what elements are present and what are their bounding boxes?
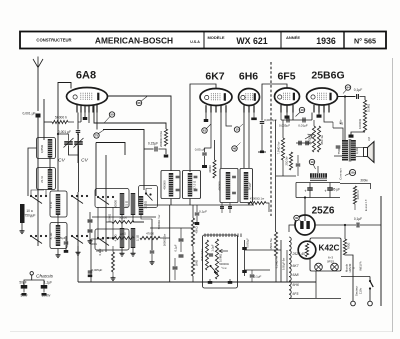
tube 25B6G — [307, 88, 338, 105]
wire screen cap left — [144, 148, 154, 150]
wire choke bus — [296, 182, 340, 184]
capacitor 0,05uF 6K7 — [195, 148, 207, 155]
text 0,002 — [98, 248, 102, 255]
6F5 pins — [281, 105, 293, 113]
wire bus 205 — [144, 204, 254, 206]
wire speaker top — [356, 148, 364, 157]
wire 25B6G g1 — [311, 113, 313, 121]
dashed divider — [270, 62, 272, 216]
svg-text:30000: 30000 — [208, 165, 212, 173]
wire under 6F5 h — [276, 175, 296, 177]
svg-text:10: 10 — [235, 128, 239, 132]
capacitor 0,1uF out — [250, 270, 262, 282]
25B6G pins — [314, 105, 329, 113]
title text ANNEE — [286, 35, 300, 40]
volume pot element — [215, 239, 222, 279]
electrolytic 50uF — [19, 281, 28, 298]
capacitor 0,005uF coup — [279, 118, 290, 128]
wire mains tee — [341, 276, 370, 278]
dial lamp 2 — [331, 263, 339, 271]
svg-text:8,1Ω: 8,1Ω — [49, 232, 53, 239]
text 50000 halfw — [157, 215, 161, 229]
svg-text:110v: 110v — [359, 287, 363, 294]
antenna lead lower — [37, 118, 39, 197]
svg-text:25Ω 5w: 25Ω 5w — [285, 156, 289, 165]
output transformer core — [349, 139, 351, 162]
wire osc sw mid — [98, 207, 113, 238]
wire mid vertical 169 — [169, 205, 171, 282]
wire 15K bottom — [275, 256, 277, 282]
IF transformer 2 box a — [220, 169, 238, 203]
capacitor 0,01uF coup — [298, 118, 308, 128]
wire avc h links — [106, 222, 170, 238]
title text No 565 — [354, 37, 376, 46]
tube 6A8 — [67, 88, 108, 106]
capacitor 0,15uF screen — [148, 142, 158, 152]
circled 19a — [296, 107, 305, 116]
resistor 45 ohm — [317, 126, 323, 152]
svg-text:750μμF: 750μμF — [25, 214, 36, 218]
svg-text:Mazda: Mazda — [345, 263, 349, 272]
title text CONSTRUCTEUR — [36, 38, 71, 43]
svg-text:0P25: 0P25 — [327, 260, 334, 264]
svg-text:6F5: 6F5 — [277, 71, 295, 83]
title text USA — [190, 40, 200, 44]
switch S2 wafer — [71, 195, 88, 204]
speaker — [364, 137, 375, 163]
svg-text:0,1μF: 0,1μF — [354, 88, 363, 92]
svg-text:10b: 10b — [350, 170, 355, 174]
switch box mid lower — [95, 229, 129, 250]
ground chassis caps — [22, 293, 47, 296]
svg-text:N° 565: N° 565 — [354, 37, 376, 46]
svg-text:17,5 Ω: 17,5 Ω — [193, 181, 197, 189]
wire vol right verticals — [281, 240, 287, 282]
volume switch — [209, 262, 228, 275]
svg-text:B: B — [352, 267, 356, 269]
text 5000 5w — [163, 234, 167, 246]
wire riser 91 — [91, 239, 104, 282]
svg-text:0,01μF: 0,01μF — [298, 124, 308, 128]
svg-text:0,1μF: 0,1μF — [199, 210, 207, 214]
tube 6K7 — [200, 89, 232, 106]
wire 7M — [282, 120, 284, 176]
wire field down — [354, 204, 356, 210]
ground coil L4 — [56, 249, 61, 258]
capacitor 0,1uF tone — [354, 88, 363, 99]
svg-text:47000: 47000 — [146, 232, 154, 236]
wire screen cap right — [159, 149, 169, 158]
capacitor 0,005uF bus — [88, 268, 103, 277]
svg-text:½ w: ½ w — [222, 266, 227, 270]
antenna coil L1 — [40, 139, 52, 158]
svg-text:750Ω: 750Ω — [337, 148, 341, 155]
wire tone bend — [360, 97, 366, 101]
osc coil L4 — [49, 225, 60, 246]
wire 45v drop — [339, 95, 347, 142]
IFT1 trimmer b — [194, 176, 198, 191]
svg-text:0,85Ω: 0,85Ω — [40, 144, 44, 153]
svg-text:45v: 45v — [339, 119, 343, 124]
svg-text:0,005μF: 0,005μF — [54, 236, 65, 240]
svg-text:MODÈLE: MODÈLE — [207, 35, 224, 40]
text 88uF — [90, 242, 104, 253]
svg-text:6K7: 6K7 — [205, 71, 224, 83]
svg-text:50: 50 — [110, 113, 114, 117]
wire 6A8 g1 pin — [78, 113, 81, 123]
svg-text:50000: 50000 — [119, 216, 127, 220]
wire mid h228 — [150, 227, 193, 229]
capacitor 0,005uF band — [54, 236, 68, 253]
svg-text:6H6: 6H6 — [239, 71, 258, 83]
capacitor mid small — [296, 155, 301, 176]
svg-text:10000Ω: 10000Ω — [358, 119, 362, 129]
svg-text:50μF: 50μF — [19, 281, 26, 285]
6K7 pins — [206, 105, 226, 112]
text 05M label — [275, 256, 286, 270]
svg-text:3,8: 3,8 — [367, 137, 371, 141]
svg-text:50μμF: 50μμF — [248, 182, 252, 190]
resistor 47000 det — [248, 197, 266, 205]
antenna coil box 2 — [37, 168, 56, 190]
volume pot box — [203, 235, 238, 288]
wire 45K joins — [192, 205, 194, 282]
svg-text:INELFA: INELFA — [359, 261, 363, 270]
IFT2 secondary — [244, 172, 252, 200]
osc coil L9 — [131, 228, 140, 248]
circled 66 — [136, 97, 147, 106]
wire 6H6 cathode — [249, 113, 257, 169]
capacitor 0,1uF det out — [195, 205, 207, 225]
svg-text:WX 621: WX 621 — [236, 36, 267, 46]
circled 61 — [202, 124, 211, 133]
wire line cap right — [360, 224, 381, 226]
svg-text:0,001 μF: 0,001 μF — [22, 112, 35, 116]
svg-text:Commun: Commun — [339, 168, 343, 180]
IFT2 bottom caps — [220, 203, 232, 214]
text E exc IT — [364, 199, 368, 212]
svg-text:45Ω 1w: 45Ω 1w — [320, 134, 324, 145]
resistor 25ohm — [285, 152, 293, 170]
wire 25B6G plate out — [338, 96, 356, 98]
osc coil L8 — [114, 228, 125, 248]
svg-text:6A8: 6A8 — [76, 70, 96, 82]
switch box right — [139, 186, 158, 208]
svg-text:10 a: 10 a — [26, 209, 32, 213]
tube 6F5 — [275, 88, 300, 105]
wire heater drop — [344, 224, 346, 239]
title block frame — [20, 32, 386, 49]
wire long return — [275, 120, 277, 232]
ground L8 — [120, 248, 125, 256]
wire 6A8 plate to IFT1 — [108, 96, 172, 171]
wire 6F5 bias left — [280, 113, 282, 121]
wire coupling bus — [281, 119, 312, 121]
wire coil join — [28, 148, 50, 196]
svg-text:2MΩ: 2MΩ — [195, 259, 199, 266]
svg-text:2MΩ 0,5w: 2MΩ 0,5w — [200, 249, 204, 261]
wire pot out lower — [242, 270, 270, 273]
page edge right — [392, 58, 394, 332]
6K7 grid wire — [190, 84, 216, 172]
wire 6K7 g2 — [202, 113, 211, 169]
tube K42C — [298, 241, 316, 259]
svg-text:66: 66 — [137, 101, 141, 105]
svg-text:0,1μF: 0,1μF — [354, 217, 362, 221]
6H6 pins — [244, 105, 254, 112]
wire ant riser — [37, 236, 39, 246]
resistor 700 heater — [343, 239, 350, 255]
padder capacitor 750uuF — [20, 204, 36, 223]
svg-text:15KΩ 5w: 15KΩ 5w — [269, 237, 273, 249]
switch S3 wafer — [97, 196, 114, 205]
text Mazda — [345, 263, 356, 272]
svg-text:94: 94 — [346, 86, 350, 90]
svg-text:0,5MΩ: 0,5MΩ — [219, 254, 223, 262]
text INELFA — [359, 261, 363, 270]
resistor 2M pot left — [200, 240, 209, 270]
svg-text:300w: 300w — [360, 179, 368, 183]
wire bottom bus — [78, 281, 316, 283]
svg-text:1,0μF: 1,0μF — [211, 244, 215, 251]
svg-text:1000Ω: 1000Ω — [108, 214, 112, 222]
wire 6A8 cathode blob — [83, 113, 88, 121]
svg-text:19: 19 — [310, 160, 314, 164]
wire 6H6 diode — [243, 113, 245, 169]
svg-text:61: 61 — [203, 129, 207, 133]
tube 6K7 label — [205, 71, 224, 83]
IFT2 trimmer a — [232, 176, 236, 194]
wire det cap down — [258, 125, 266, 154]
svg-text:20000Ω 0,5w: 20000Ω 0,5w — [159, 131, 163, 147]
wire osc grid vert — [77, 113, 79, 164]
wire filter gnd bus — [296, 183, 340, 198]
svg-text:AMERICAN-BOSCH: AMERICAN-BOSCH — [95, 36, 173, 46]
svg-text:19: 19 — [300, 108, 304, 112]
antenna coil box 1 — [37, 138, 56, 159]
capacitor avc — [150, 238, 155, 265]
wire osc right — [141, 215, 152, 219]
text Secteur — [355, 286, 363, 296]
wire 6A8 pin4 — [88, 113, 90, 124]
svg-text:0,1μF: 0,1μF — [174, 244, 178, 251]
osc coil L3 — [49, 194, 60, 215]
svg-text:K42C: K42C — [319, 244, 340, 253]
svg-text:CV: CV — [58, 158, 65, 164]
svg-text:6F5: 6F5 — [293, 292, 299, 296]
chassis wires — [24, 275, 44, 285]
output transformer primary — [337, 140, 348, 161]
wire cap avc riser — [151, 219, 153, 250]
wire 25B6G cathode — [317, 113, 322, 118]
6F5 grid wire — [262, 84, 287, 121]
wire pot out upper — [245, 249, 271, 251]
svg-text:1MΩ: 1MΩ — [120, 232, 126, 236]
trimmer caps pair — [88, 212, 93, 244]
resistor 45K vol — [191, 218, 198, 246]
mains terminal 2 — [368, 301, 373, 306]
svg-text:CONSTRUCTEUR: CONSTRUCTEUR — [36, 38, 71, 43]
svg-text:6A8: 6A8 — [293, 273, 299, 277]
antenna coil L2 — [40, 169, 52, 190]
wire 6F5 plate — [292, 113, 294, 121]
antenna — [33, 57, 43, 112]
tube 6H6 — [239, 89, 260, 106]
variable capacitor CV1 — [58, 138, 73, 164]
wire 6A8 anode2 — [103, 130, 144, 191]
heater chain list — [292, 252, 306, 296]
svg-text:1,1μF: 1,1μF — [44, 281, 52, 285]
IFT2 primary — [218, 172, 231, 200]
wire 6K7 cathode — [204, 113, 209, 123]
svg-text:25Z6: 25Z6 — [312, 206, 335, 217]
circled 75 — [94, 130, 104, 138]
wire tone gnd — [349, 132, 366, 138]
ballast box — [310, 238, 341, 271]
svg-text:2,1Ω: 2,1Ω — [136, 234, 140, 241]
svg-text:0,005μF: 0,005μF — [246, 238, 250, 248]
svg-text:0,1μF: 0,1μF — [254, 275, 262, 279]
tube 25Z6 — [295, 215, 315, 235]
pot grounds — [208, 279, 233, 284]
pot contact comb — [205, 234, 241, 238]
wire 25B6G screen — [324, 113, 333, 123]
ground L9 — [131, 248, 136, 256]
svg-text:0,05μF 6w: 0,05μF 6w — [282, 258, 286, 270]
tube 6F5 label — [277, 71, 295, 83]
svg-text:6K7: 6K7 — [293, 264, 299, 268]
switch S3b wafer — [97, 237, 114, 246]
resistor avc2 — [112, 232, 134, 240]
svg-text:0,5MΩ ½w: 0,5MΩ ½w — [275, 256, 279, 269]
wire avc vertical — [106, 196, 120, 252]
wire IFT1 bottom taps — [171, 199, 190, 206]
wire 6A8 grid cap — [58, 83, 71, 192]
osc coil box 1 — [50, 191, 67, 217]
filter choke — [310, 173, 327, 180]
electrolytic 45uF a — [304, 183, 312, 198]
capacitor stack c — [173, 258, 178, 280]
tube 25B6G label — [311, 70, 344, 82]
IF transformer 2 box b — [240, 169, 253, 203]
osc coil L5 — [114, 193, 125, 215]
wire L5 bottom — [121, 215, 123, 228]
circled 94 — [343, 85, 351, 94]
wire res left — [44, 121, 74, 123]
svg-text:0,001 μF: 0,001 μF — [58, 130, 71, 134]
svg-text:E exc I.T.: E exc I.T. — [364, 199, 368, 212]
resistor avc3 — [140, 232, 160, 240]
wire 6A8 pin6 — [96, 113, 98, 130]
resistor 0,1M tone — [363, 100, 370, 117]
svg-text:75: 75 — [95, 134, 99, 138]
resistor 7M — [277, 138, 285, 160]
svg-text:400000: 400000 — [218, 181, 222, 191]
IFT1 trimmer a — [176, 176, 180, 191]
svg-text:47 Ω: 47 Ω — [49, 201, 53, 208]
text 300w — [360, 179, 368, 183]
svg-text:50000Ω ½w: 50000Ω ½w — [157, 215, 161, 229]
resistor 2M vol — [191, 252, 198, 276]
IF transformer 1 box b — [183, 171, 201, 199]
ballast bottom wires — [289, 271, 341, 299]
wire L3 L4 join — [57, 215, 59, 225]
wire 25Z6 out — [315, 224, 356, 226]
wire osc vertical a — [105, 155, 107, 196]
resistor 3000 field — [353, 186, 360, 204]
text Commun — [339, 168, 343, 180]
wire 300w — [340, 184, 371, 190]
wire 6F5 cathode — [285, 113, 290, 119]
svg-text:0,005μF: 0,005μF — [279, 124, 290, 128]
resistor 30000 damping — [208, 140, 216, 178]
svg-text:5000Ω 5w: 5000Ω 5w — [163, 234, 167, 246]
svg-text:45 μF: 45 μF — [332, 188, 340, 192]
svg-text:U.S.A: U.S.A — [190, 40, 200, 44]
IFT1 primary — [163, 173, 174, 197]
tube 6A8 label — [76, 70, 96, 82]
pot wiper — [219, 249, 228, 252]
switch box mid — [95, 189, 129, 208]
wire right edge bus — [380, 196, 382, 306]
resistor avc1 — [112, 216, 134, 224]
osc coil L7 — [139, 196, 148, 215]
wire sw riser a — [31, 190, 46, 196]
chassis terminal — [30, 272, 54, 280]
svg-text:0,15μF: 0,15μF — [148, 142, 158, 146]
osc coil L6 — [125, 193, 136, 215]
capacitor stack a — [179, 228, 184, 252]
switch S1b wafer — [30, 235, 47, 244]
wire 25Z6 top — [304, 196, 306, 215]
mains switch — [369, 277, 373, 302]
wire heater to plug — [345, 255, 353, 301]
circled 50 — [105, 112, 115, 123]
wire CV2 bottom — [77, 145, 80, 282]
svg-text:21 Ω: 21 Ω — [40, 176, 44, 183]
tube 6H6 label — [239, 71, 258, 83]
title text WX 621 — [236, 36, 267, 46]
resistor 30000 grid — [308, 126, 316, 152]
capacitor 0,0005uF det — [260, 118, 277, 123]
svg-text:0,002: 0,002 — [98, 248, 102, 255]
osc coil box 2 — [50, 223, 67, 249]
wire 6K7 plate — [220, 113, 222, 169]
svg-text:40: 40 — [295, 216, 299, 220]
resistor 20000 screen — [159, 129, 168, 147]
svg-text:400000: 400000 — [163, 180, 167, 190]
wire vol to right — [270, 250, 287, 270]
tube 25Z6 label — [312, 206, 335, 217]
pot wiper arrow — [305, 134, 312, 139]
svg-text:6H6: 6H6 — [293, 283, 299, 287]
svg-text:0,005μF: 0,005μF — [92, 268, 103, 272]
wire CV1 bottom — [69, 145, 79, 155]
wire 6K7 screen — [226, 113, 232, 127]
svg-text:CV: CV — [81, 158, 88, 164]
svg-text:46: 46 — [233, 147, 237, 151]
circled 40 — [294, 215, 302, 222]
svg-text:700Ω: 700Ω — [347, 243, 351, 250]
switch S2b wafer — [71, 235, 88, 244]
svg-text:Chassis: Chassis — [36, 274, 54, 280]
electrolytic 45uF b — [324, 183, 340, 198]
capacitor 0,1uF line — [354, 217, 362, 228]
IFT1 secondary — [188, 173, 197, 197]
wire pot right — [242, 238, 249, 276]
resistor 10000 tone — [358, 117, 367, 132]
svg-text:HRV40: HRV40 — [348, 263, 352, 272]
